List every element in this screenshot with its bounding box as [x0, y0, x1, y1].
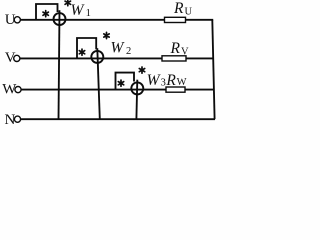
svg-text:V: V [181, 47, 189, 58]
resistor RW [166, 87, 185, 92]
wattmeter W1 [54, 13, 66, 25]
svg-text:R: R [165, 72, 176, 89]
svg-text:1: 1 [86, 8, 91, 19]
polarity mark W1 loop [43, 11, 48, 17]
polarity mark W3 top [139, 67, 144, 73]
terminal U [14, 17, 20, 23]
wire V line [20, 57, 214, 59]
svg-text:3: 3 [161, 78, 166, 89]
resistor RV [162, 56, 186, 61]
wattmeter W2 [91, 51, 103, 63]
wattmeter W1 voltage-loop wire [36, 4, 58, 20]
svg-text:W: W [177, 77, 187, 88]
terminal W [15, 87, 21, 93]
svg-text:W: W [71, 2, 86, 19]
resistor RU [165, 17, 186, 22]
wire right vertical bus [212, 20, 214, 119]
polarity mark W3 loop [118, 80, 123, 86]
svg-text:U: U [5, 12, 16, 28]
wire W line [21, 89, 214, 91]
wattmeter W3 voltage-loop wire [116, 73, 135, 90]
terminal V [14, 55, 20, 61]
svg-text:W: W [111, 39, 126, 56]
svg-text:V: V [5, 50, 16, 66]
wire W3 vertical lead to N [135, 80, 138, 120]
wire U line [20, 19, 213, 21]
svg-text:W: W [147, 72, 162, 89]
svg-text:R: R [170, 40, 181, 57]
polarity mark W2 top [104, 32, 109, 38]
svg-text:W: W [2, 82, 17, 98]
polarity mark W2 loop [79, 49, 84, 55]
svg-text:2: 2 [126, 46, 131, 57]
wattmeter W2 voltage-loop wire [77, 38, 96, 58]
svg-text:U: U [185, 6, 193, 17]
svg-text:R: R [173, 0, 184, 17]
svg-text:N: N [5, 112, 16, 128]
wire W2 vertical lead to N [97, 48, 100, 119]
wire N line [21, 118, 215, 120]
polarity mark W1 top [65, 0, 70, 6]
terminal N [14, 116, 20, 122]
wire W1 vertical lead to N [59, 10, 60, 119]
wattmeter W3 [131, 82, 143, 94]
